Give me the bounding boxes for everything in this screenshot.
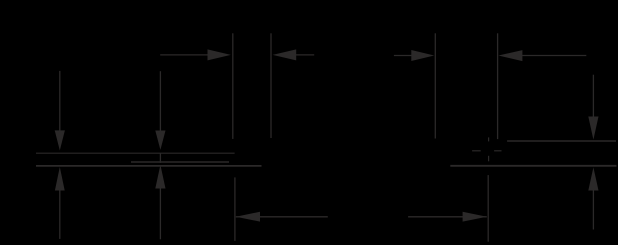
dim b2 right leader	[522, 55, 587, 57]
dim b2 arrowhead right-pointing	[411, 50, 434, 61]
gage plane line	[507, 140, 616, 142]
center mark vertical dash bottom	[488, 156, 490, 162]
dim c1 upper stem	[59, 71, 61, 131]
dim b2 left leader	[394, 55, 413, 57]
dim b1 right leader	[296, 54, 315, 56]
dim c2 mid tick	[159, 153, 161, 163]
dim 0.25 upper stem	[592, 75, 594, 118]
seating plane left	[36, 165, 262, 167]
dim L arrowhead left-pointing	[236, 212, 260, 222]
dim c2 lower stem	[159, 188, 161, 239]
seating plane right	[450, 165, 616, 167]
dim c2 arrowhead down	[155, 131, 165, 150]
center mark vertical dash top	[488, 137, 490, 141]
dim 0.25 arrowhead down	[588, 117, 598, 140]
dim L extension left	[234, 177, 236, 241]
lead 1 right edge	[270, 33, 272, 138]
center mark horizontal dash left	[472, 150, 481, 152]
dim b1 arrowhead right-pointing	[208, 49, 231, 60]
dim c1 lower stem	[59, 190, 61, 239]
foot bottom surface	[131, 161, 229, 163]
dim b1 left leader	[160, 54, 210, 56]
dim L arrowhead right-pointing	[463, 212, 487, 222]
center mark horizontal dash right	[494, 150, 501, 152]
dim c2 upper stem	[159, 71, 161, 131]
dim b1 arrowhead left-pointing	[273, 49, 297, 60]
lead 2 left edge	[434, 33, 436, 138]
foot top surface	[36, 152, 235, 154]
lead 1 left edge	[232, 33, 234, 139]
dim b2 arrowhead left-pointing	[498, 50, 522, 61]
dim c2 arrowhead up	[155, 165, 165, 189]
lead 2 right edge	[497, 33, 499, 139]
dim L line right segment	[408, 216, 487, 218]
dim L extension right	[487, 175, 489, 242]
dim L line left segment	[236, 216, 328, 218]
dim c1 arrowhead down	[55, 130, 65, 150]
dim 0.25 lower stem	[592, 190, 594, 230]
dim c1 arrowhead up	[55, 167, 65, 191]
dim 0.25 arrowhead up	[588, 167, 598, 190]
